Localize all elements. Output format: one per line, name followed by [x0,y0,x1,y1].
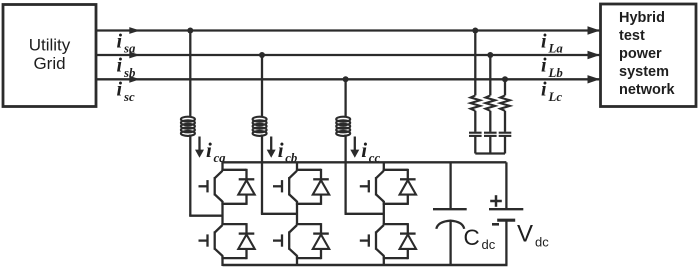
wire: top connector of Q3 cell [296,169,321,171]
wire: leg b connection to negative rail [296,258,298,266]
svg-text:sc: sc [123,90,135,104]
wire: resistor Rb to capacitor Cb [489,111,491,132]
diode D1 (anti-parallel) [245,169,247,180]
arrow: converter current i_cb [270,137,272,151]
svg-text:Lb: Lb [548,66,564,80]
svg-text:sb: sb [123,66,136,80]
svg-text:dc: dc [482,237,496,252]
battery V_dc negative plate [497,219,515,222]
wire: leg b midpoint (phase b node) [296,204,298,224]
svg-text:i: i [206,138,212,162]
wire: bottom connector of Q2 cell [221,257,246,259]
label - (negative terminal) [492,223,499,226]
arrow: converter current i_ca [198,137,200,151]
wire: phase a drop from line to filter inductor [189,31,191,118]
resistor Rc (damping) [500,95,510,110]
arrow: load current i_Lb direction [588,51,601,59]
inductor Lb (converter filter coil) [253,117,267,122]
wire: V_dc branch to negative rail [505,221,507,265]
node: phase b tap to converter branch [259,52,265,58]
svg-text:La: La [548,42,564,56]
label + (positive terminal) [490,200,502,203]
capacitor Cc (filter) [499,132,512,134]
wire: bottom connector of Q4 cell [296,257,321,259]
capacitor C_dc (DC link, straight plate) [433,208,467,210]
svg-text:i: i [541,55,547,77]
wire: bottom connector of Q3 cell [296,203,321,205]
transistor Q4 (IGBT) [273,239,282,241]
wire: DC bus negative rail [223,264,508,266]
transistor Q1 (IGBT) [199,185,208,187]
node: phase c tap to RC filter branch [502,76,508,82]
resistor Ra (damping) [471,95,481,110]
wire: phase b drop from line to filter inductor [261,55,263,118]
diode D3 (anti-parallel) [320,169,322,180]
node: phase c tap to converter branch [343,76,349,82]
transistor Q5 (IGBT) [360,185,369,187]
arrow: source current i_sc direction [129,76,140,83]
svg-text:Lc: Lc [548,90,563,104]
wire: leg c connection to positive rail [383,162,385,170]
node: phase b tap to RC filter branch [487,52,493,58]
wire: phase a line from Utility Grid to Hybrid network [97,29,601,31]
wire: DC bus positive rail [221,161,506,163]
diode D5 (anti-parallel) [407,169,409,180]
wire: capacitor Cc to filter star point [504,136,506,154]
svg-text:i: i [117,79,123,101]
wire: phase a drop to damping resistor [474,31,476,96]
wire: phase c drop from line to filter inductor [344,79,346,117]
arrow: source current i_sb direction [129,52,140,59]
arrow: source current i_sa direction [129,27,140,34]
wire: leg a connection to positive rail [221,162,223,170]
block: Utility Grid source box [3,5,96,107]
svg-text:system: system [619,64,669,80]
wire: leg a midpoint (phase a node) [221,204,223,224]
inductor Lc (converter filter coil) [336,117,350,122]
svg-text:dc: dc [535,235,549,250]
svg-text:Hybrid: Hybrid [619,10,665,26]
wire: bottom connector of Q1 cell [221,203,246,205]
diode D2 (anti-parallel) [245,223,247,234]
arrow: converter current i_cc [354,137,356,151]
svg-text:i: i [117,31,123,53]
diode D6 (anti-parallel) [407,223,409,234]
arrow: load current i_Lc direction [588,75,601,83]
diode D4 (anti-parallel) [320,223,322,234]
wire: C_dc branch to negative rail [449,221,451,265]
svg-text:i: i [541,79,547,101]
wire: phase c drop to damping resistor [504,79,506,95]
wire: top connector of Q6 cell [383,223,408,225]
wire: leg b connection to positive rail [296,162,298,170]
wire: leg a connection to negative rail [221,258,223,266]
wire: phase b line from Utility Grid to Hybrid network [97,54,601,56]
wire: capacitor Ca to filter star point [474,136,476,154]
wire: top connector of Q2 cell [221,223,246,225]
wire: phase c line from Utility Grid to Hybrid network [97,78,601,80]
wire: leg c midpoint (phase c node) [383,204,385,224]
svg-text:power: power [619,46,662,62]
wire: phase a from inductor down and over to leg midpoint [189,135,191,216]
svg-text:C: C [464,225,480,250]
wire: bottom connector of Q5 cell [383,203,408,205]
node: phase a tap to RC filter branch [472,28,478,34]
svg-text:test: test [619,28,645,44]
wire: top connector of Q4 cell [296,223,321,225]
wire: bottom connector of Q6 cell [383,257,408,259]
battery V_dc positive plate [489,208,523,210]
transistor Q6 (IGBT) [360,239,369,241]
wire: leg c connection to negative rail [383,258,385,266]
arrow: load current i_La direction [588,26,601,34]
wire: capacitor Cb to filter star point [489,136,491,154]
wire: phase b from inductor down and over to leg midpoint [261,135,263,214]
svg-text:Grid: Grid [33,54,65,73]
wire: top connector of Q5 cell [383,169,408,171]
wire: phase b drop to damping resistor [489,55,491,95]
svg-text:i: i [117,55,123,77]
transistor Q2 (IGBT) [199,239,208,241]
capacitor Ca (filter) [469,132,482,134]
node: phase a tap to converter branch [187,28,193,34]
transistor Q3 (IGBT) [273,185,282,187]
svg-text:Utility: Utility [29,36,71,55]
wire: C_dc branch from positive rail [449,162,451,209]
svg-text:i: i [361,138,367,162]
inductor La (converter filter coil) [181,117,195,122]
resistor Rb (damping) [486,95,496,110]
wire: phase c from inductor down and over to leg midpoint [344,135,346,214]
block: Hybrid test power system network box [601,4,697,107]
capacitor C_dc (curved plate) [436,221,464,229]
svg-text:sa: sa [123,42,136,56]
wire: resistor Ra to capacitor Ca [474,111,476,132]
svg-text:i: i [541,31,547,53]
svg-text:V: V [517,221,533,248]
svg-text:i: i [278,138,284,162]
svg-text:network: network [619,82,676,98]
wire: V_dc branch from positive rail [505,162,507,209]
capacitor Cb (filter) [484,132,497,134]
wire: top connector of Q1 cell [221,169,246,171]
wire: RC filter common star node [475,152,505,154]
wire: resistor Rc to capacitor Cc [504,111,506,132]
